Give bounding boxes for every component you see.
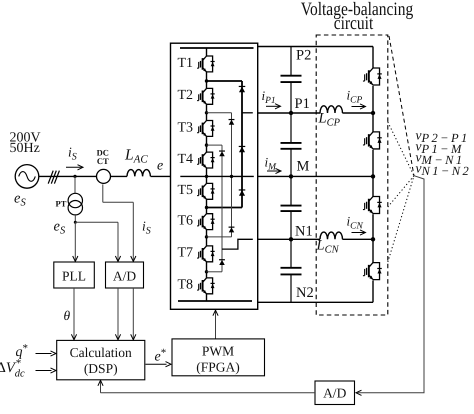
clamp diode D4 — [229, 119, 235, 121]
wire clamp A3 line — [207, 144, 223, 146]
inductor LCP — [320, 106, 343, 113]
wire iS signal from CT to A/D — [102, 184, 104, 202]
wire gate signal from PWM — [215, 311, 217, 339]
wire v signals to A/D — [358, 176, 425, 393]
node chopper P1 tap — [371, 111, 375, 115]
svg-text:CT: CT — [97, 156, 109, 166]
svg-text:Calculation: Calculation — [70, 345, 132, 360]
clamp diode D6 — [219, 150, 225, 152]
clamp diode D1 — [239, 85, 246, 87]
wire clamp chain I vertical — [241, 81, 243, 208]
svg-text:T7: T7 — [178, 246, 194, 261]
three-phase slashes — [48, 171, 53, 184]
node junction A1 — [205, 79, 208, 82]
node junction A2 — [205, 111, 208, 114]
node M — [289, 174, 293, 178]
inductor LAC — [127, 170, 150, 177]
transistor T7 — [207, 246, 213, 262]
node PT tap — [73, 175, 76, 178]
wire N1 line — [258, 238, 320, 240]
svg-text:A/D: A/D — [323, 386, 347, 401]
wire eS signal from PT to PLL — [74, 215, 76, 222]
clamp diode D2 — [239, 145, 246, 147]
capacitor C1 — [281, 75, 302, 77]
block Calculation DSP — [57, 340, 145, 379]
svg-text:e: e — [157, 158, 163, 173]
label voltage-balancing circuit title — [301, 0, 414, 34]
wire N1 tap staircase — [222, 239, 253, 249]
svg-text:T5: T5 — [178, 183, 194, 198]
node junction B1 — [205, 206, 208, 209]
current transformer DC CT — [97, 169, 111, 183]
wire A/D to calculation feedback — [101, 392, 316, 394]
transistor chopper Q1 — [373, 68, 380, 85]
node chopper N1 tap — [371, 237, 375, 241]
top DC rail — [180, 47, 254, 49]
node P1 — [289, 111, 293, 115]
wire chopper leg — [372, 47, 374, 69]
wire PT branch — [74, 176, 76, 193]
capacitor C3 — [281, 205, 302, 207]
svg-text:circuit: circuit — [334, 13, 374, 34]
svg-text:(FPGA): (FPGA) — [196, 359, 240, 374]
bottom DC rail — [178, 300, 252, 302]
transistor T5 — [207, 183, 213, 199]
block PLL — [54, 262, 95, 288]
wire clamp B3 line — [207, 271, 223, 273]
clamp diode D5 — [229, 226, 235, 228]
wire AC line from source to converter — [39, 175, 97, 177]
svg-text:N2: N2 — [296, 285, 314, 301]
node N1 — [289, 237, 293, 241]
svg-text:T6: T6 — [178, 214, 194, 229]
wire P2 line — [258, 46, 373, 48]
block A/D bottom — [315, 381, 355, 405]
svg-text:vN1−N2: vN1−N2 — [416, 160, 472, 178]
transistor T6 — [207, 214, 213, 230]
transistor T1 — [207, 56, 213, 72]
wire P1 line — [258, 112, 320, 114]
node junction AC out — [205, 175, 208, 178]
wire clamp B2 line — [207, 236, 232, 238]
inductor LCN — [320, 232, 343, 239]
node chain II mid — [230, 175, 233, 178]
svg-text:PT: PT — [56, 199, 67, 209]
svg-text:N1: N1 — [295, 224, 313, 240]
wire measurement tap dotted 1 — [388, 122, 414, 176]
node junction B3 — [205, 270, 208, 273]
transistor chopper Q4 — [373, 263, 380, 280]
converter box — [171, 43, 258, 309]
wire capacitor string — [290, 47, 292, 76]
wire M line — [258, 175, 373, 177]
transistor chopper Q3 — [373, 197, 380, 214]
svg-text:T2: T2 — [178, 88, 194, 103]
wire A/D outputs to calculation — [117, 288, 119, 340]
wire AC output line — [180, 175, 254, 177]
svg-text:PWM: PWM — [202, 344, 234, 359]
svg-text:θ: θ — [64, 308, 71, 323]
wire clamp chain III vertical — [221, 145, 223, 272]
transistor T3 — [207, 121, 213, 137]
transistor chopper Q2 — [373, 132, 380, 149]
svg-text:P2: P2 — [296, 48, 311, 64]
wire clamp B1 line — [207, 207, 243, 209]
node junction A3 — [205, 143, 208, 146]
wire main switch string — [206, 48, 208, 56]
svg-text:T1: T1 — [178, 56, 194, 71]
AC source 200V 50Hz — [15, 165, 39, 189]
svg-text:T4: T4 — [178, 152, 194, 167]
svg-text:A/D: A/D — [113, 269, 137, 284]
wire clamp chain II vertical — [231, 113, 233, 237]
wire measurement tap dotted 3 — [388, 176, 414, 262]
node chopper M — [371, 174, 375, 178]
transistor T2 — [207, 88, 213, 104]
block A/D — [106, 262, 144, 288]
wire P1 tap — [242, 112, 253, 114]
PT potential transformer — [68, 193, 82, 207]
clamp diode D3 — [239, 189, 246, 191]
svg-text:(DSP): (DSP) — [84, 361, 118, 376]
dashed box voltage-balancing circuit — [316, 35, 388, 315]
svg-text:P1: P1 — [295, 96, 310, 112]
wire measurement tap dotted 2 — [388, 176, 414, 207]
transistor T8 — [207, 278, 213, 294]
svg-text:50Hz: 50Hz — [10, 141, 40, 156]
svg-text:M: M — [297, 159, 310, 175]
wire measurement tap dashed from P2 — [389, 36, 414, 176]
transistor T4 — [207, 152, 213, 168]
svg-text:T8: T8 — [178, 278, 194, 293]
capacitor C4 — [281, 267, 302, 269]
wire clamp A1 to chain I — [207, 80, 243, 82]
svg-text:T3: T3 — [178, 120, 194, 135]
block PWM FPGA — [172, 339, 265, 376]
clamp diode D7 — [219, 259, 225, 261]
svg-text:PLL: PLL — [62, 269, 86, 284]
capacitor C2 — [281, 142, 302, 144]
node junction B2 — [205, 235, 208, 238]
wire theta PLL to calculation — [73, 288, 75, 340]
wire clamp A2 line — [207, 112, 232, 114]
wire N2 line — [258, 301, 373, 303]
